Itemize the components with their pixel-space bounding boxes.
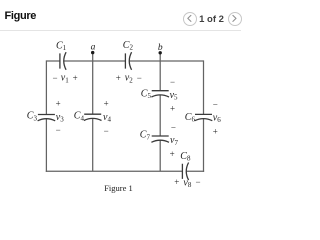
pagination prev button xyxy=(183,12,197,26)
svg-text:−: − xyxy=(104,126,109,136)
svg-text:+: + xyxy=(170,149,175,159)
pagination text 1 of 2 xyxy=(198,14,225,25)
capacitor C2 xyxy=(125,52,131,70)
capacitor C8 xyxy=(182,163,188,181)
svg-text:C4: C4 xyxy=(74,111,85,123)
svg-text:−: − xyxy=(171,122,176,132)
wire right edge lower xyxy=(203,119,205,172)
svg-text:+: + xyxy=(213,127,218,137)
wire bottom-left segment xyxy=(46,170,183,172)
svg-text:−: − xyxy=(52,73,57,83)
capacitor C3 xyxy=(38,115,56,121)
wire node a branch lower xyxy=(92,119,94,172)
svg-text:C1: C1 xyxy=(56,41,67,53)
capacitor C1 xyxy=(60,52,66,70)
svg-text:b: b xyxy=(158,43,163,53)
node a dot xyxy=(91,51,94,54)
svg-text:+: + xyxy=(170,104,175,114)
svg-text:−: − xyxy=(195,177,200,187)
capacitor C4 xyxy=(84,114,102,120)
wire node a branch upper xyxy=(92,53,94,115)
chevron right xyxy=(233,15,236,21)
wire top-middle segment xyxy=(64,60,126,62)
svg-text:v3: v3 xyxy=(56,112,64,124)
svg-text:v8: v8 xyxy=(183,178,191,190)
wire node b branch upper xyxy=(159,53,161,91)
svg-text:−: − xyxy=(56,125,61,135)
svg-text:C5: C5 xyxy=(141,89,152,101)
svg-text:+: + xyxy=(73,73,78,83)
svg-text:C8: C8 xyxy=(180,151,191,163)
pagination chevrons xyxy=(0,0,241,209)
svg-text:−: − xyxy=(137,73,142,83)
wire bottom-right segment xyxy=(186,170,204,172)
svg-text:v6: v6 xyxy=(213,112,221,124)
wire left edge upper xyxy=(45,60,47,114)
svg-text:+: + xyxy=(116,73,121,83)
circuit schematic svg xyxy=(0,0,241,209)
svg-text:v1: v1 xyxy=(61,73,69,85)
wire right edge upper xyxy=(203,60,205,114)
svg-text:C2: C2 xyxy=(123,40,134,52)
svg-text:+: + xyxy=(174,177,179,187)
svg-text:+: + xyxy=(104,98,109,108)
svg-text:C7: C7 xyxy=(140,130,151,142)
svg-text:v7: v7 xyxy=(170,135,178,147)
header title xyxy=(5,10,37,22)
wire node b branch middle xyxy=(159,95,161,136)
wire top-right segment xyxy=(129,60,203,62)
svg-text:C6: C6 xyxy=(185,112,196,124)
wire left edge lower xyxy=(45,119,47,172)
svg-text:v2: v2 xyxy=(125,73,133,85)
svg-text:+: + xyxy=(56,98,61,108)
svg-text:v5: v5 xyxy=(170,90,178,102)
pagination next button xyxy=(228,12,242,26)
wire node b branch lower xyxy=(159,140,161,171)
svg-text:a: a xyxy=(91,43,96,53)
svg-text:−: − xyxy=(170,77,175,87)
capacitor C6 xyxy=(195,114,213,120)
svg-text:−: − xyxy=(213,99,218,109)
node b dot xyxy=(159,51,162,54)
capacitor C7 xyxy=(151,136,169,142)
divider rule xyxy=(0,30,241,31)
chevron left xyxy=(188,15,191,21)
svg-text:Figure 1: Figure 1 xyxy=(104,183,133,193)
capacitor C5 xyxy=(151,91,169,97)
svg-text:C3: C3 xyxy=(27,111,38,123)
svg-text:v4: v4 xyxy=(103,112,111,124)
wire top-left segment xyxy=(46,60,60,62)
